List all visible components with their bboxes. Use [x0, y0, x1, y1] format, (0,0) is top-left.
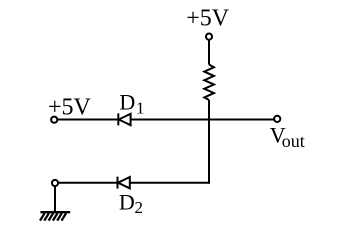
- svg-text:out: out: [282, 131, 305, 151]
- svg-text:D: D: [119, 89, 135, 114]
- svg-text:1: 1: [136, 98, 145, 117]
- svg-text:+5V: +5V: [186, 6, 230, 32]
- svg-text:2: 2: [135, 198, 144, 217]
- svg-text:+5V: +5V: [48, 95, 92, 121]
- svg-text:D: D: [119, 189, 135, 214]
